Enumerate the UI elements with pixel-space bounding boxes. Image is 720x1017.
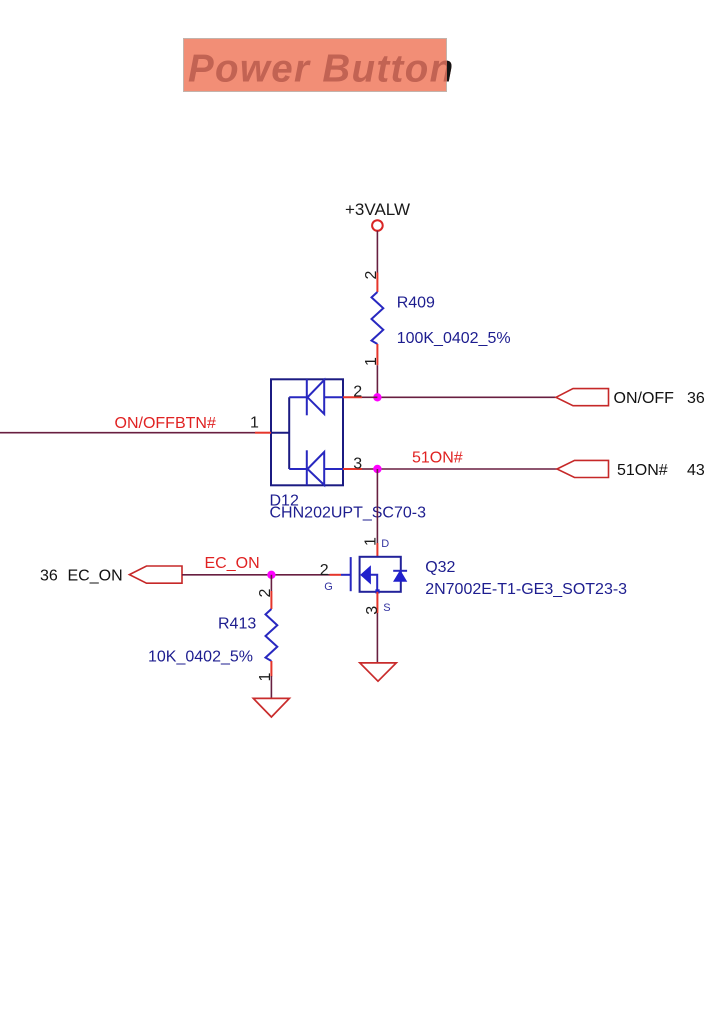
svg-text:EC_ON: EC_ON	[68, 568, 123, 585]
resistor R409 pin 1 stub	[376, 344, 378, 365]
Q32 internal junction square	[375, 589, 379, 593]
wire node 51ON# down to Q32 drain	[376, 469, 378, 543]
D12 inner common bus	[288, 397, 290, 469]
D12 bottom diode cathode bar	[306, 450, 308, 485]
D12 pin 1 stub	[255, 432, 271, 434]
D12 top diode anode lead	[324, 396, 343, 398]
D12 pin 3 stub	[343, 468, 362, 470]
resistor R409 pin 2 stub	[376, 273, 378, 293]
ground symbol under Q32	[360, 663, 397, 681]
junction node EC_ON	[267, 571, 275, 579]
Q32 body diode cathode bar	[393, 570, 407, 572]
svg-text:2: 2	[353, 384, 362, 401]
svg-text:CHN202UPT_SC70-3: CHN202UPT_SC70-3	[270, 505, 427, 522]
svg-text:2: 2	[363, 271, 380, 280]
resistor R409 zigzag body	[372, 292, 384, 344]
resistor R413 pin 1 stub	[270, 661, 272, 677]
svg-text:Q32: Q32	[425, 559, 455, 576]
svg-text:43: 43	[687, 462, 705, 479]
svg-text:+3VALW: +3VALW	[345, 200, 410, 219]
wire node EC_ON down to R413	[270, 575, 272, 591]
svg-text:1: 1	[250, 415, 259, 432]
svg-text:D: D	[381, 538, 389, 550]
svg-text:Power Button: Power Button	[188, 48, 454, 91]
ground symbol under R413	[253, 698, 289, 717]
svg-text:36: 36	[687, 390, 705, 407]
Q32 gate bar	[350, 557, 352, 591]
svg-text:3: 3	[353, 455, 362, 472]
svg-text:36: 36	[40, 568, 58, 585]
svg-text:2: 2	[257, 589, 274, 598]
junction node ON/OFF	[373, 393, 381, 401]
power symbol +3VALW circle	[372, 220, 383, 231]
junction node 51ON#	[373, 465, 381, 473]
svg-text:2N7002E-T1-GE3_SOT23-3: 2N7002E-T1-GE3_SOT23-3	[425, 581, 627, 598]
diode D12 body box	[271, 379, 343, 485]
svg-text:EC_ON: EC_ON	[205, 555, 260, 572]
wire ON/OFFBTN# from left edge to D12 pin 1	[0, 432, 255, 434]
svg-text:2: 2	[320, 562, 329, 579]
svg-text:51ON#: 51ON#	[617, 462, 668, 479]
wire R409 pin1 to node ON/OFF	[376, 365, 378, 397]
Q32 body box	[360, 557, 401, 592]
D12 top diode cathode bar	[306, 379, 308, 415]
wire R413 pin1 to ground	[270, 676, 272, 698]
wire +3VALW to R409 pin 2	[376, 231, 378, 273]
off-page connector 51ON#	[557, 460, 609, 477]
svg-text:100K_0402_5%: 100K_0402_5%	[397, 330, 511, 347]
title highlight box	[184, 39, 447, 92]
svg-text:1: 1	[363, 357, 380, 366]
svg-text:51ON#: 51ON#	[412, 450, 463, 467]
D12 bottom diode anode lead	[324, 468, 343, 470]
svg-text:G: G	[324, 581, 333, 593]
svg-text:R409: R409	[397, 295, 435, 312]
wire D12 pin3 to node	[362, 468, 377, 470]
D12 bottom diode cathode lead	[289, 468, 307, 470]
svg-text:ON/OFF: ON/OFF	[614, 390, 675, 407]
resistor R413 zigzag body	[266, 609, 278, 661]
wire Q32 source to ground	[376, 613, 378, 663]
D12 inner pin1 lead	[271, 432, 289, 434]
Q32 gate blue lead	[341, 574, 351, 576]
wire D12 pin2 to node	[362, 396, 377, 398]
wire node 51ON# to connector	[377, 468, 557, 470]
wire EC_ON connector to node	[182, 574, 271, 576]
svg-text:3: 3	[364, 606, 381, 615]
Q32 channel arrow (filled)	[361, 566, 371, 583]
svg-text:ON/OFFBTN#: ON/OFFBTN#	[115, 415, 216, 432]
off-page connector EC_ON	[129, 566, 182, 583]
off-page connector ON/OFF	[556, 389, 609, 406]
D12 bottom diode triangle	[308, 452, 325, 485]
transistor Q32 drain pin stub	[376, 543, 378, 557]
Q32 gate pin stub	[330, 574, 342, 576]
Q32 body diode triangle (filled)	[394, 571, 407, 582]
D12 pin 2 stub	[343, 396, 362, 398]
svg-text:1: 1	[363, 537, 380, 546]
Q32 source internal lead	[370, 575, 377, 592]
resistor R413 pin 2 stub	[270, 591, 272, 609]
svg-text:R413: R413	[218, 616, 256, 633]
wire node EC_ON to Q32 gate	[271, 574, 329, 576]
Q32 source pin stub	[376, 592, 378, 613]
wire node ON/OFF to connector	[377, 396, 555, 398]
svg-text:10K_0402_5%: 10K_0402_5%	[148, 649, 253, 666]
D12 top diode cathode lead	[289, 396, 307, 398]
D12 top diode triangle	[308, 380, 325, 414]
svg-text:S: S	[383, 602, 390, 614]
